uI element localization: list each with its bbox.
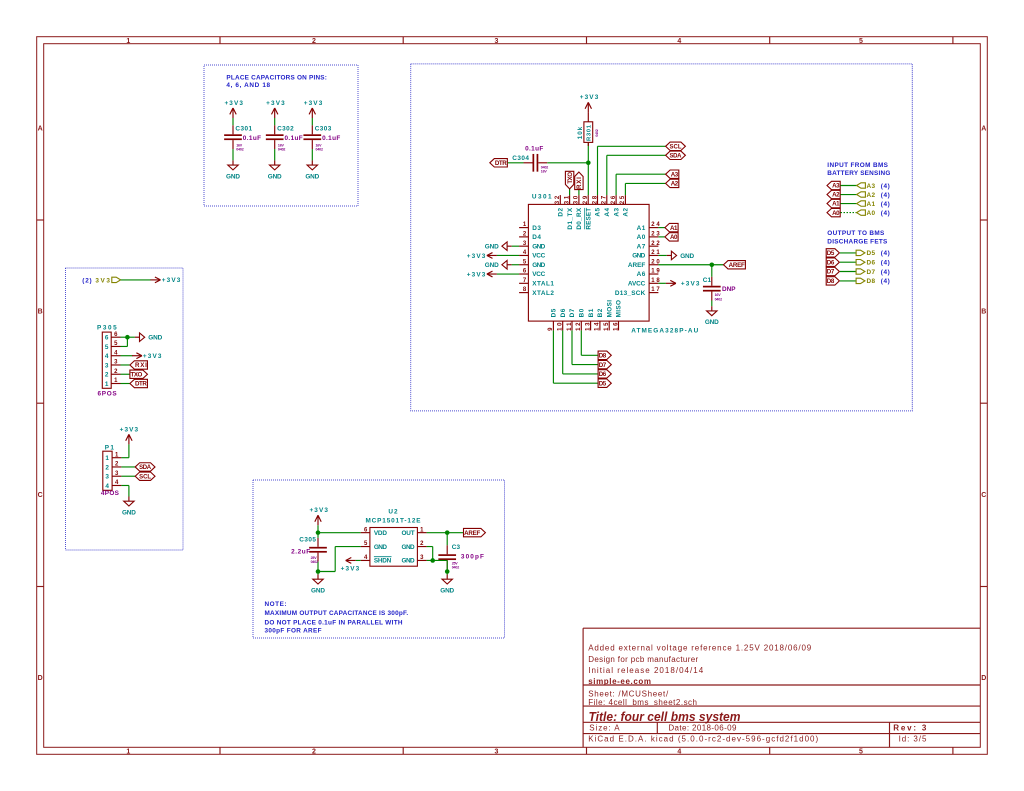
svg-text:GND: GND <box>122 510 136 517</box>
svg-text:D5: D5 <box>827 250 835 257</box>
svg-text:12: 12 <box>576 322 582 331</box>
svg-text:D6: D6 <box>560 308 567 317</box>
svg-text:C1: C1 <box>703 277 712 284</box>
svg-text:C301: C301 <box>235 125 252 132</box>
svg-text:D0_RX: D0_RX <box>576 207 583 229</box>
svg-text:Added external voltage referen: Added external voltage reference 1.25V 2… <box>588 643 812 652</box>
svg-text:SCL: SCL <box>670 144 682 150</box>
svg-text:17: 17 <box>651 287 660 293</box>
svg-text:GND: GND <box>374 544 387 551</box>
svg-text:1: 1 <box>126 38 130 45</box>
svg-text:3: 3 <box>495 748 499 755</box>
svg-text:TXO: TXO <box>567 172 574 184</box>
svg-text:0.1uF: 0.1uF <box>285 135 303 142</box>
svg-text:0402: 0402 <box>278 148 286 152</box>
svg-text:Rev: 3: Rev: 3 <box>893 724 927 733</box>
svg-text:+3V3: +3V3 <box>143 353 162 360</box>
svg-text:C3: C3 <box>452 544 461 551</box>
svg-text:A1: A1 <box>832 201 840 208</box>
svg-text:10: 10 <box>558 322 564 331</box>
svg-text:29: 29 <box>583 195 589 204</box>
svg-text:26: 26 <box>611 195 617 204</box>
svg-text:4, 6, AND 18: 4, 6, AND 18 <box>226 82 270 89</box>
svg-text:GND: GND <box>305 173 319 180</box>
svg-text:4: 4 <box>105 353 109 360</box>
svg-text:DNP: DNP <box>722 286 736 293</box>
svg-text:Title: four cell bms system: Title: four cell bms system <box>589 709 741 724</box>
svg-text:4: 4 <box>105 483 109 490</box>
svg-text:A2: A2 <box>623 207 630 216</box>
svg-text:+3V3: +3V3 <box>341 566 360 573</box>
svg-text:A1: A1 <box>637 225 646 232</box>
svg-text:(4): (4) <box>881 210 890 217</box>
svg-text:A0: A0 <box>867 210 876 217</box>
svg-text:A0: A0 <box>670 234 678 241</box>
svg-text:B: B <box>38 309 43 316</box>
svg-text:A3: A3 <box>613 207 620 216</box>
svg-text:D5: D5 <box>551 308 558 317</box>
svg-text:Size: A: Size: A <box>589 724 620 733</box>
svg-text:1: 1 <box>105 455 109 462</box>
svg-text:2: 2 <box>105 372 109 379</box>
svg-text:19: 19 <box>651 269 660 275</box>
svg-text:GND: GND <box>148 335 162 342</box>
svg-text:C303: C303 <box>315 125 332 132</box>
svg-text:A1: A1 <box>670 225 678 232</box>
svg-text:SDA: SDA <box>670 153 683 159</box>
svg-text:C305: C305 <box>299 537 316 544</box>
svg-text:BATTERY SENSING: BATTERY SENSING <box>827 170 890 177</box>
svg-text:27: 27 <box>602 195 608 204</box>
svg-text:GND: GND <box>402 558 415 565</box>
svg-text:10k: 10k <box>577 126 584 139</box>
svg-text:B2: B2 <box>597 308 604 317</box>
svg-text:22: 22 <box>651 241 660 247</box>
svg-text:+3V3: +3V3 <box>224 100 243 107</box>
svg-text:D6: D6 <box>827 259 835 266</box>
svg-text:6: 6 <box>105 335 109 342</box>
svg-text:DTR: DTR <box>135 381 147 388</box>
svg-text:25: 25 <box>620 195 626 204</box>
svg-text:GND: GND <box>705 319 719 326</box>
svg-text:4: 4 <box>677 38 681 45</box>
svg-text:A6: A6 <box>637 271 646 278</box>
svg-text:OUTPUT TO BMS: OUTPUT TO BMS <box>827 230 885 237</box>
svg-text:31: 31 <box>564 195 570 204</box>
svg-text:NOTE:: NOTE: <box>265 601 287 608</box>
svg-text:RXI: RXI <box>576 177 583 189</box>
svg-text:D7: D7 <box>827 269 835 276</box>
svg-text:300pF FOR AREF: 300pF FOR AREF <box>265 628 322 635</box>
svg-text:GND: GND <box>440 588 454 595</box>
svg-text:A3: A3 <box>671 171 679 178</box>
svg-text:(2): (2) <box>82 277 91 284</box>
svg-text:P305: P305 <box>97 325 117 332</box>
svg-text:P1: P1 <box>105 444 115 451</box>
svg-text:A4: A4 <box>604 207 611 216</box>
svg-text:B: B <box>981 309 986 316</box>
svg-text:GND: GND <box>311 588 325 595</box>
svg-text:U301: U301 <box>532 194 552 201</box>
svg-text:1: 1 <box>105 381 109 388</box>
svg-text:Initial release 2018/04/14: Initial release 2018/04/14 <box>588 666 704 675</box>
svg-text:VCC: VCC <box>532 271 545 278</box>
svg-text:D2: D2 <box>558 207 565 216</box>
svg-text:32: 32 <box>555 195 561 204</box>
svg-text:A5: A5 <box>595 207 602 216</box>
svg-text:+3V3: +3V3 <box>309 507 328 514</box>
svg-text:File: 4cell_bms_sheet2.sch: File: 4cell_bms_sheet2.sch <box>588 698 697 707</box>
svg-text:RESET: RESET <box>585 208 592 230</box>
svg-text:0402: 0402 <box>452 566 460 570</box>
svg-text:D: D <box>981 675 986 682</box>
svg-text:28: 28 <box>592 195 598 204</box>
svg-text:AVCC: AVCC <box>628 281 646 288</box>
svg-text:(4): (4) <box>881 269 890 276</box>
svg-text:2: 2 <box>312 38 316 45</box>
svg-text:A: A <box>38 125 43 132</box>
svg-text:GND: GND <box>632 253 645 260</box>
svg-text:PLACE CAPACITORS ON PINS:: PLACE CAPACITORS ON PINS: <box>226 74 327 81</box>
svg-text:(4): (4) <box>881 192 890 199</box>
svg-text:14: 14 <box>595 322 601 331</box>
svg-text:VDD: VDD <box>374 530 387 537</box>
svg-text:B1: B1 <box>588 308 595 317</box>
svg-text:(4): (4) <box>881 201 890 208</box>
svg-text:XTAL2: XTAL2 <box>532 290 554 297</box>
svg-text:DO NOT PLACE 0.1uF IN PARALLEL: DO NOT PLACE 0.1uF IN PARALLEL WITH <box>265 619 403 626</box>
svg-text:GND: GND <box>402 544 415 551</box>
svg-text:A2: A2 <box>867 192 876 199</box>
svg-text:+3V3: +3V3 <box>467 271 486 278</box>
svg-text:GND: GND <box>532 262 545 269</box>
svg-text:A7: A7 <box>637 243 646 250</box>
svg-text:VCC: VCC <box>532 253 545 260</box>
svg-text:SDA: SDA <box>139 465 152 471</box>
svg-text:+3V3: +3V3 <box>266 100 285 107</box>
svg-text:+3V3: +3V3 <box>681 281 700 288</box>
svg-text:D: D <box>38 675 43 682</box>
svg-text:DTR: DTR <box>495 160 507 167</box>
svg-text:A0: A0 <box>637 234 646 241</box>
svg-text:TXO: TXO <box>131 371 143 378</box>
svg-text:5: 5 <box>859 748 863 755</box>
svg-text:D8: D8 <box>599 352 607 359</box>
svg-text:D13_SCK: D13_SCK <box>615 290 646 297</box>
svg-text:OUT: OUT <box>402 530 415 537</box>
svg-text:0402: 0402 <box>316 148 324 152</box>
svg-text:A1: A1 <box>867 201 876 208</box>
svg-text:C: C <box>981 492 986 499</box>
svg-text:DISCHARGE FETS: DISCHARGE FETS <box>827 239 888 246</box>
svg-text:GND: GND <box>485 243 499 250</box>
svg-text:(4): (4) <box>881 250 890 257</box>
svg-text:AREF: AREF <box>464 530 480 537</box>
svg-text:D6: D6 <box>867 260 876 267</box>
svg-text:D6: D6 <box>599 371 607 378</box>
svg-text:D7: D7 <box>569 308 576 317</box>
svg-text:RXI: RXI <box>135 362 147 369</box>
svg-text:D4: D4 <box>532 234 541 241</box>
svg-text:C302: C302 <box>277 125 294 132</box>
svg-text:MAXIMUM OUTPUT CAPACITANCE IS: MAXIMUM OUTPUT CAPACITANCE IS 300pF. <box>265 610 409 617</box>
svg-text:C304: C304 <box>512 155 529 162</box>
svg-text:13: 13 <box>585 322 591 331</box>
svg-text:16: 16 <box>613 322 619 331</box>
svg-text:AREF: AREF <box>628 262 645 269</box>
svg-text:0402: 0402 <box>311 560 319 564</box>
svg-text:1: 1 <box>126 748 130 755</box>
svg-text:D8: D8 <box>867 278 876 285</box>
svg-text:0.1uF: 0.1uF <box>525 145 543 152</box>
svg-text:+3V3: +3V3 <box>162 277 181 284</box>
svg-text:SHDN: SHDN <box>374 558 392 565</box>
svg-text:ATMEGA328P-AU: ATMEGA328P-AU <box>631 328 698 335</box>
svg-text:+3V3: +3V3 <box>120 427 139 434</box>
svg-text:MOSI: MOSI <box>606 300 613 318</box>
svg-text:C: C <box>38 492 43 499</box>
svg-text:D5: D5 <box>867 250 876 257</box>
svg-text:+3V3: +3V3 <box>580 94 599 101</box>
svg-text:R301: R301 <box>587 124 593 141</box>
svg-text:Id: 3/5: Id: 3/5 <box>899 734 927 743</box>
svg-text:4POS: 4POS <box>101 490 120 497</box>
svg-text:(4): (4) <box>881 183 890 190</box>
svg-text:0.1uF: 0.1uF <box>322 135 340 142</box>
svg-text:3: 3 <box>105 474 109 481</box>
svg-text:A2: A2 <box>832 192 840 199</box>
svg-text:(4): (4) <box>881 278 890 285</box>
svg-text:3: 3 <box>105 362 109 369</box>
svg-text:D7: D7 <box>867 269 876 276</box>
svg-text:KiCad E.D.A. kicad (5.0.0-rc2: KiCad E.D.A. kicad (5.0.0-rc2-dev-596-gc… <box>588 734 818 743</box>
svg-text:5: 5 <box>105 344 109 351</box>
svg-text:INPUT FROM BMS: INPUT FROM BMS <box>827 162 888 169</box>
svg-text:Design for pcb manufacturer: Design for pcb manufacturer <box>588 655 698 664</box>
svg-text:A3: A3 <box>832 183 840 190</box>
svg-text:MCP1501T-12E: MCP1501T-12E <box>366 518 422 525</box>
svg-text:GND: GND <box>680 253 694 260</box>
svg-text:+3V3: +3V3 <box>304 100 323 107</box>
svg-text:GND: GND <box>532 243 545 250</box>
svg-text:A3: A3 <box>867 183 876 190</box>
svg-text:+3V3: +3V3 <box>467 253 486 260</box>
svg-text:Date: 2018-06-09: Date: 2018-06-09 <box>668 724 737 733</box>
svg-text:SCL: SCL <box>139 474 151 480</box>
svg-text:2: 2 <box>105 464 109 471</box>
svg-text:5: 5 <box>859 38 863 45</box>
svg-text:0402: 0402 <box>236 148 244 152</box>
svg-text:16V: 16V <box>541 170 548 174</box>
svg-text:MISO: MISO <box>616 300 623 317</box>
svg-text:D5: D5 <box>599 380 607 387</box>
svg-text:6POS: 6POS <box>98 391 118 398</box>
svg-text:U2: U2 <box>388 509 398 516</box>
svg-text:AREF: AREF <box>729 262 745 269</box>
svg-text:A0: A0 <box>832 210 840 217</box>
svg-text:D7: D7 <box>599 362 607 369</box>
svg-text:A2: A2 <box>671 181 679 188</box>
svg-text:A: A <box>981 125 986 132</box>
svg-text:simple-ee.com: simple-ee.com <box>588 677 651 686</box>
svg-text:GND: GND <box>485 262 499 269</box>
svg-text:4: 4 <box>677 748 681 755</box>
svg-text:B0: B0 <box>579 308 586 317</box>
svg-text:15: 15 <box>604 322 610 331</box>
svg-text:XTAL1: XTAL1 <box>532 281 554 288</box>
svg-text:(4): (4) <box>881 260 890 267</box>
svg-text:D8: D8 <box>827 278 835 285</box>
svg-text:2.2uF: 2.2uF <box>291 549 310 556</box>
svg-text:3: 3 <box>495 38 499 45</box>
svg-text:0402: 0402 <box>715 297 723 301</box>
svg-text:D1_TX: D1_TX <box>567 207 574 229</box>
svg-text:GND: GND <box>268 173 282 180</box>
svg-text:0402: 0402 <box>595 129 599 137</box>
svg-text:GND: GND <box>226 173 240 180</box>
svg-text:0.1uF: 0.1uF <box>243 135 261 142</box>
svg-text:3V3: 3V3 <box>95 277 110 284</box>
svg-text:2: 2 <box>312 748 316 755</box>
svg-text:30: 30 <box>574 195 580 204</box>
svg-text:D3: D3 <box>532 225 541 232</box>
svg-text:11: 11 <box>567 322 573 331</box>
svg-text:300pF: 300pF <box>461 554 484 561</box>
